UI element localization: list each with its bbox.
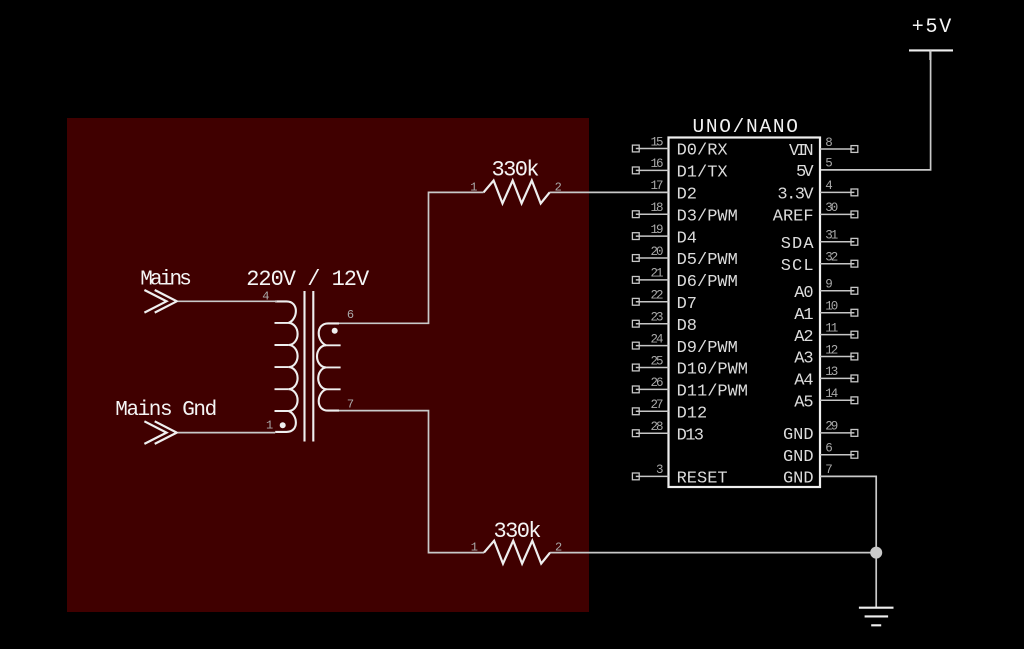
svg-text:32: 32 bbox=[825, 251, 838, 265]
svg-text:A2: A2 bbox=[794, 328, 813, 347]
svg-text:8: 8 bbox=[825, 136, 833, 150]
wire Mains to T1 pin 4 bbox=[178, 300, 277, 302]
svg-text:15: 15 bbox=[651, 135, 664, 149]
svg-text:13: 13 bbox=[825, 365, 838, 379]
svg-text:5V: 5V bbox=[796, 163, 814, 182]
U1 pin 3 (RESET) left bbox=[632, 463, 727, 488]
svg-text:D10/PWM: D10/PWM bbox=[677, 361, 748, 380]
U1 pin 8 (VIN) right bbox=[789, 136, 858, 161]
U1 pin 26 (D11/PWM) left bbox=[632, 376, 748, 401]
svg-text:D4: D4 bbox=[677, 229, 697, 248]
svg-text:6: 6 bbox=[825, 442, 833, 456]
svg-text:A5: A5 bbox=[794, 394, 813, 413]
wire U1 pin 7 (GND) down to ground bbox=[820, 476, 876, 607]
svg-text:23: 23 bbox=[651, 311, 664, 325]
svg-text:11: 11 bbox=[825, 321, 838, 335]
svg-text:A0: A0 bbox=[794, 284, 813, 303]
svg-text:18: 18 bbox=[651, 201, 664, 215]
wire +5V to U1 pin 5 (5V) bbox=[820, 50, 931, 169]
svg-text:D0/RX: D0/RX bbox=[677, 142, 728, 161]
svg-text:220V / 12V: 220V / 12V bbox=[246, 267, 370, 292]
T1 secondary winding ticks bbox=[326, 345, 341, 389]
svg-text:D9/PWM: D9/PWM bbox=[677, 339, 738, 358]
svg-text:16: 16 bbox=[651, 157, 664, 171]
svg-text:31: 31 bbox=[825, 229, 838, 243]
wire R1 pin 1 to T1 pin 6 bbox=[337, 192, 483, 323]
svg-text:GND: GND bbox=[783, 426, 814, 445]
svg-text:2: 2 bbox=[555, 181, 562, 195]
svg-text:30: 30 bbox=[825, 201, 838, 215]
svg-text:D6/PWM: D6/PWM bbox=[677, 273, 738, 292]
svg-text:A1: A1 bbox=[794, 306, 813, 325]
svg-text:4: 4 bbox=[825, 179, 833, 193]
T1 primary polarity dot bbox=[280, 422, 286, 428]
U1 pin 7 (GND) right bbox=[783, 463, 833, 488]
U1 pin 21 (D6/PWM) left bbox=[632, 267, 737, 292]
U1 pin 19 (D4) left bbox=[632, 223, 697, 248]
svg-text:D5/PWM: D5/PWM bbox=[677, 251, 738, 270]
power symbol +5V bbox=[909, 50, 953, 60]
svg-text:10: 10 bbox=[825, 300, 838, 314]
svg-text:D13: D13 bbox=[677, 426, 704, 445]
U1 pin 28 (D13) left bbox=[632, 420, 704, 445]
U1 pin 12 (A3) right bbox=[794, 343, 858, 368]
T1 primary winding ticks bbox=[275, 323, 289, 411]
svg-text:AREF: AREF bbox=[773, 208, 814, 227]
wire R2 pin 2 to GND junction bbox=[550, 552, 876, 554]
svg-text:D2: D2 bbox=[677, 186, 697, 205]
wire U1 pin 17 (D2) to R1 pin 2 bbox=[550, 191, 669, 193]
U1 pin 30 (AREF) right bbox=[773, 201, 858, 226]
U1 pin 32 (SCL) right bbox=[781, 251, 858, 276]
wire Mains Gnd to T1 pin 1 bbox=[178, 432, 275, 434]
svg-text:D12: D12 bbox=[677, 405, 708, 424]
U1 pin 27 (D12) left bbox=[632, 398, 707, 423]
svg-text:9: 9 bbox=[825, 278, 833, 292]
svg-text:22: 22 bbox=[651, 289, 664, 303]
svg-text:GND: GND bbox=[783, 448, 814, 467]
svg-text:5: 5 bbox=[825, 157, 833, 171]
svg-text:Mains: Mains bbox=[140, 268, 192, 291]
Mains Gnd chevron arrow bbox=[144, 421, 176, 444]
U1 pin 5 (5V) right bbox=[796, 157, 833, 182]
svg-text:21: 21 bbox=[651, 267, 664, 281]
svg-text:D7: D7 bbox=[677, 295, 697, 314]
T1 primary winding bbox=[275, 301, 297, 432]
U1 pin 16 (D1/TX) left bbox=[632, 157, 727, 182]
U1 pin 22 (D7) left bbox=[632, 289, 697, 314]
svg-text:D3/PWM: D3/PWM bbox=[677, 207, 738, 226]
svg-text:330k: 330k bbox=[494, 519, 542, 544]
U1 pin 9 (A0) right bbox=[794, 278, 858, 303]
svg-text:25: 25 bbox=[651, 354, 664, 368]
svg-text:6: 6 bbox=[347, 308, 354, 322]
svg-text:26: 26 bbox=[651, 376, 664, 390]
U1 pin 31 (SDA) right bbox=[781, 229, 858, 254]
svg-text:3: 3 bbox=[656, 463, 664, 477]
svg-text:Mains Gnd: Mains Gnd bbox=[115, 399, 217, 422]
IC U1 UNO/NANO body bbox=[669, 138, 821, 488]
svg-text:SCL: SCL bbox=[781, 257, 814, 276]
Mains chevron arrow bbox=[144, 290, 176, 313]
wire T1 pin 7 to R2 pin 1 bbox=[339, 411, 484, 553]
U1 pin 10 (A1) right bbox=[794, 300, 858, 325]
U1 pin 24 (D9/PWM) left bbox=[632, 332, 737, 357]
U1 pin 29 (GND) right bbox=[783, 420, 858, 445]
resistor R2 bbox=[484, 541, 550, 564]
resistor R1 bbox=[484, 181, 550, 204]
T1 secondary winding bbox=[317, 323, 339, 410]
svg-text:D8: D8 bbox=[677, 317, 697, 336]
junction dot GND net bbox=[870, 547, 882, 559]
svg-text:27: 27 bbox=[651, 398, 664, 412]
svg-text:SDA: SDA bbox=[781, 235, 815, 254]
svg-text:330k: 330k bbox=[492, 158, 540, 183]
T1 secondary polarity dot bbox=[332, 328, 338, 334]
U1 pin 14 (A5) right bbox=[794, 387, 858, 412]
U1 pin 13 (A4) right bbox=[794, 365, 858, 390]
U1 pin 15 (D0/RX) left bbox=[632, 135, 727, 160]
U1 pin 17 (D2) left bbox=[651, 179, 698, 204]
svg-text:29: 29 bbox=[825, 420, 838, 434]
svg-text:UNO/NANO: UNO/NANO bbox=[692, 116, 798, 138]
svg-text:A4: A4 bbox=[794, 372, 813, 391]
ground symbol bbox=[859, 608, 894, 626]
highlighted mains-voltage region bbox=[67, 118, 589, 612]
svg-text:14: 14 bbox=[825, 387, 838, 401]
svg-text:24: 24 bbox=[651, 332, 664, 346]
svg-text:17: 17 bbox=[651, 179, 664, 193]
U1 pin 11 (A2) right bbox=[794, 321, 858, 346]
svg-text:RESET: RESET bbox=[677, 470, 728, 489]
svg-text:7: 7 bbox=[825, 463, 833, 477]
svg-text:D1/TX: D1/TX bbox=[677, 164, 728, 183]
svg-text:3.3V: 3.3V bbox=[777, 186, 814, 205]
svg-text:19: 19 bbox=[651, 223, 664, 237]
svg-text:28: 28 bbox=[651, 420, 664, 434]
svg-text:1: 1 bbox=[471, 541, 478, 555]
U1 pin 25 (D10/PWM) left bbox=[632, 354, 748, 379]
svg-text:GND: GND bbox=[783, 470, 814, 489]
svg-text:12: 12 bbox=[825, 343, 838, 357]
svg-text:A3: A3 bbox=[794, 350, 813, 369]
U1 pin 4 (3.3V) right bbox=[777, 179, 857, 204]
U1 pin 23 (D8) left bbox=[632, 311, 697, 336]
U1 pin 6 (GND) right bbox=[783, 442, 858, 467]
svg-text:VIN: VIN bbox=[789, 142, 814, 161]
svg-text:D11/PWM: D11/PWM bbox=[677, 383, 748, 402]
svg-text:+5V: +5V bbox=[912, 16, 952, 39]
svg-text:1: 1 bbox=[266, 419, 273, 433]
U1 pin 18 (D3/PWM) left bbox=[632, 201, 737, 226]
transformer T1 core bbox=[305, 291, 314, 442]
svg-text:20: 20 bbox=[651, 245, 664, 259]
svg-text:7: 7 bbox=[347, 398, 354, 412]
U1 pin 20 (D5/PWM) left bbox=[632, 245, 737, 270]
